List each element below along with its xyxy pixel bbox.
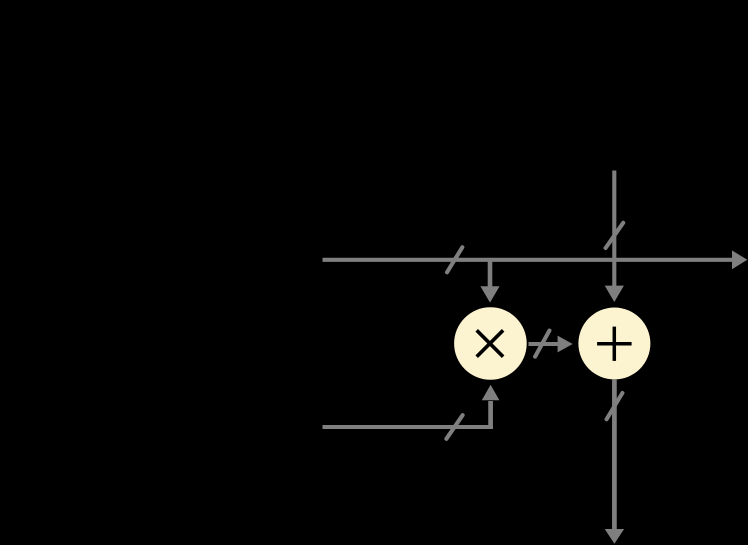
- slash tick on multiplier-to-adder wire: [535, 331, 549, 357]
- multiplier symbol x: [477, 330, 503, 356]
- slash tick on lower-left bus: [446, 415, 462, 439]
- slash tick on top horizontal bus: [447, 247, 462, 272]
- slash tick on adder output wire: [607, 393, 623, 419]
- slash tick on top vertical bus: [606, 223, 624, 248]
- wire: multiplier output to adder input: [529, 336, 573, 353]
- wire: top horizontal bus, left end to right arrowhead: [323, 250, 748, 269]
- wire: top vertical bus into adder: [605, 171, 624, 303]
- adder node (elementwise sum): [578, 308, 650, 380]
- wire: branch drop from top bus into multiplier: [480, 260, 499, 303]
- multiplier node (elementwise product): [454, 307, 527, 380]
- adder symbol +: [597, 327, 632, 361]
- wire: adder output down to bottom arrowhead: [605, 380, 624, 544]
- wire: lower-left bus with corner up into multiplier: [323, 385, 500, 429]
